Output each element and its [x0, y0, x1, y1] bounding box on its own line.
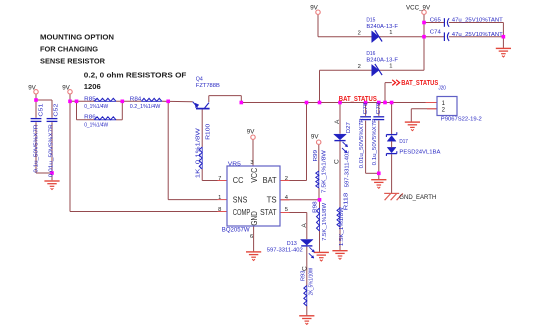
- transistor Q4: [193, 77, 220, 109]
- svg-text:SENSE RESISTOR: SENSE RESISTOR: [40, 56, 106, 65]
- wire D17 anode drop: [391, 103, 393, 135]
- wire SNS net from rail: [168, 101, 217, 199]
- pin number 8: [218, 207, 221, 213]
- svg-text:C: C: [301, 266, 308, 271]
- wire Q4 base to R100: [201, 109, 203, 147]
- svg-text:D17: D17: [399, 139, 408, 145]
- svg-text:47u_25V10%TANT: 47u_25V10%TANT: [452, 18, 503, 24]
- junction D27 branch: [338, 101, 342, 105]
- wire J20 pin2 to ground: [411, 109, 437, 122]
- svg-text:D27: D27: [346, 122, 352, 133]
- svg-text:9V: 9V: [310, 5, 318, 12]
- ground R93: [299, 316, 314, 325]
- LED D13: [267, 223, 315, 271]
- junction C52 bottom: [50, 171, 54, 175]
- pin number 7: [218, 176, 221, 182]
- LED D27: [334, 119, 352, 187]
- wire VCC_9V vertical: [423, 14, 425, 70]
- pin name COMP: [233, 208, 251, 217]
- pin name STAT: [260, 208, 277, 217]
- junction SNS drop: [166, 100, 170, 104]
- pin name CC: [233, 176, 244, 185]
- svg-text:STAT: STAT: [260, 208, 277, 217]
- pin number 6: [250, 234, 253, 240]
- ground C78/C79: [371, 180, 386, 189]
- wire BAT pin riser: [280, 103, 307, 181]
- svg-text:R85: R85: [84, 97, 96, 103]
- wire R118 to ground: [339, 227, 341, 250]
- svg-text:C79: C79: [376, 103, 382, 115]
- pin stub TS pin 4: [280, 199, 290, 201]
- pin number 2: [285, 176, 288, 182]
- wire D16 branch riser: [320, 70, 372, 102]
- svg-text:BAT_STATUS: BAT_STATUS: [339, 96, 377, 103]
- wire C79 bottom leg: [378, 121, 380, 174]
- junction Q4 collector: [240, 101, 244, 105]
- pin number 4: [285, 195, 289, 201]
- note resistors of 1206: [84, 70, 187, 91]
- svg-text:D13: D13: [287, 241, 298, 247]
- wire D27 cathode to R118: [339, 141, 341, 208]
- wire C79 top leg: [378, 103, 380, 116]
- svg-text:2: 2: [358, 30, 361, 36]
- svg-text:47u_25V10%TANT: 47u_25V10%TANT: [452, 32, 503, 38]
- wire C78 bottom leg: [365, 121, 367, 174]
- svg-text:R99: R99: [313, 150, 319, 162]
- op-amp U1 charge controller VR5 BQ2057W box: [222, 162, 280, 234]
- svg-text:0.01u_50V5%X7R: 0.01u_50V5%X7R: [48, 124, 54, 177]
- wire TS pin to R99/R98 node: [280, 199, 320, 201]
- svg-text:0.2_1%1/4W: 0.2_1%1/4W: [130, 104, 161, 110]
- wire R86 parallel loop: [77, 101, 123, 120]
- capacitor C51: [31, 104, 45, 173]
- svg-text:5: 5: [285, 207, 288, 213]
- wire C52 bottom leg: [51, 122, 53, 173]
- svg-text:Q4: Q4: [196, 77, 204, 83]
- wire D16 cathode to VCC_9V: [379, 69, 424, 71]
- svg-text:A: A: [334, 119, 341, 124]
- junction C65 row: [422, 21, 426, 25]
- svg-text:R84: R84: [130, 97, 142, 103]
- junction C79 top: [377, 101, 381, 105]
- svg-text:7: 7: [218, 176, 221, 182]
- wire C52 top leg: [51, 100, 53, 118]
- pin stub J20 pin 1: [426, 102, 438, 104]
- power VCC_9V: [406, 5, 431, 15]
- ground C65/C74: [496, 48, 511, 57]
- svg-text:SNS: SNS: [233, 195, 248, 204]
- resistor R93: [301, 268, 315, 306]
- pin name BAT: [263, 176, 277, 185]
- junction BAT riser: [305, 101, 309, 105]
- svg-text:9V: 9V: [311, 134, 319, 141]
- svg-text:VCC_9V: VCC_9V: [406, 5, 431, 12]
- svg-text:B240A-13-F: B240A-13-F: [366, 24, 398, 30]
- ground VR5 GND pin: [246, 252, 261, 261]
- resistor R86: [84, 114, 116, 128]
- svg-text:J20: J20: [438, 85, 446, 91]
- svg-text:8: 8: [218, 207, 221, 213]
- resistor R99: [313, 150, 328, 193]
- svg-text:D16: D16: [366, 51, 376, 57]
- label GND_EARTH: [399, 194, 436, 201]
- svg-text:C: C: [334, 159, 341, 164]
- svg-text:9V: 9V: [62, 84, 70, 91]
- svg-text:9V: 9V: [247, 129, 255, 136]
- wire C78 top leg: [365, 103, 367, 116]
- pin name TS: [267, 195, 277, 204]
- svg-text:7.5K_1%1/8W: 7.5K_1%1/8W: [322, 150, 328, 193]
- diode D16: [358, 51, 399, 76]
- wire R99 to TS node: [318, 188, 320, 200]
- resistor R98: [313, 201, 328, 241]
- svg-text:C74: C74: [430, 30, 442, 36]
- svg-text:FOR CHANGING: FOR CHANGING: [40, 44, 98, 53]
- svg-text:GND_EARTH: GND_EARTH: [399, 194, 436, 201]
- diode D15: [358, 18, 399, 43]
- pin number 1: [218, 195, 221, 201]
- pin stub SNS pin 1: [218, 199, 228, 201]
- pin name SNS: [233, 195, 248, 204]
- svg-text:PESD24VL1BA: PESD24VL1BA: [399, 150, 440, 156]
- svg-text:597-3311-402: 597-3311-402: [345, 150, 351, 187]
- capacitor C78: [359, 102, 371, 169]
- svg-text:0.1u_50V5%X7R: 0.1u_50V5%X7R: [372, 118, 378, 165]
- svg-text:R98: R98: [313, 201, 319, 213]
- svg-text:0_1%1/4W: 0_1%1/4W: [84, 104, 108, 110]
- capacitor C65: [430, 18, 503, 27]
- wire 9V stub to R99: [318, 144, 320, 171]
- svg-text:9V: 9V: [28, 84, 36, 91]
- wire C78/C79 bottom rail to ground: [366, 173, 379, 179]
- svg-text:FZT788B: FZT788B: [196, 83, 220, 89]
- svg-text:VR5: VR5: [228, 162, 242, 168]
- wire 9V to C51/C52 top rail: [36, 94, 52, 100]
- junction C74 right: [502, 35, 506, 39]
- junction D16 branch: [318, 101, 322, 105]
- svg-text:6: 6: [250, 234, 253, 240]
- svg-text:0.1u_50V5%X7R: 0.1u_50V5%X7R: [33, 125, 39, 173]
- ground J20 pin 2: [405, 122, 420, 131]
- pin stub BAT pin 2: [280, 180, 290, 182]
- svg-text:A: A: [301, 223, 308, 228]
- svg-text:3: 3: [250, 160, 253, 166]
- svg-text:597-3311-402: 597-3311-402: [267, 247, 303, 253]
- power 9V for D15: [310, 5, 320, 15]
- resistor R85: [84, 97, 116, 110]
- wire D17 to GND_EARTH: [391, 154, 393, 193]
- wire D13 cathode to R93: [306, 247, 308, 286]
- svg-text:D15: D15: [366, 18, 376, 24]
- svg-text:VCC: VCC: [250, 167, 259, 182]
- svg-text:R100: R100: [206, 123, 212, 140]
- junction BAT_STATUS riser: [383, 101, 387, 105]
- power 9V for VR5 VCC: [247, 129, 255, 140]
- svg-text:C65: C65: [430, 18, 442, 24]
- resistor R100: [195, 123, 211, 178]
- svg-text:2: 2: [358, 64, 361, 70]
- wire Q4 collector loop: [209, 96, 242, 103]
- svg-text:C78: C78: [363, 102, 369, 115]
- pin name GND: [250, 211, 259, 226]
- svg-text:BQ2057W: BQ2057W: [222, 227, 250, 234]
- wire BAT_STATUS off-page riser: [385, 83, 392, 103]
- wire C51 top leg: [35, 100, 37, 118]
- pin stub J20 pin 2: [427, 108, 437, 110]
- svg-text:B240A-13-F: B240A-13-F: [366, 57, 398, 63]
- wire C51 bottom leg: [35, 122, 37, 173]
- wire STAT pin to D13: [280, 213, 307, 240]
- junction TS node: [318, 198, 322, 202]
- svg-text:C52: C52: [53, 104, 59, 117]
- svg-text:0.2, 0 ohm RESISTORS OF: 0.2, 0 ohm RESISTORS OF: [84, 70, 187, 79]
- pin stub CC pin 7: [218, 180, 228, 182]
- svg-text:0.01u_50V5%X7R: 0.01u_50V5%X7R: [359, 118, 365, 168]
- wire R85 to R84: [116, 100, 141, 102]
- junction C78/C79 ground: [377, 172, 381, 176]
- junction D17 top: [390, 101, 394, 105]
- power 9V for C51/C52: [28, 84, 38, 94]
- connector J20: [437, 85, 482, 122]
- wire main charge rail right: [241, 102, 425, 104]
- pin stub STAT pin 5: [280, 212, 290, 214]
- wire main rail left segment: [70, 100, 94, 102]
- wire D27 anode drop: [339, 103, 341, 134]
- resistor R84: [130, 97, 162, 110]
- pin stub COMP pin 8: [218, 211, 228, 213]
- TVS diode D17: [386, 132, 440, 156]
- junction C51 top: [34, 98, 38, 102]
- svg-text:1: 1: [218, 195, 221, 201]
- wire D15 cathode to VCC_9V: [379, 36, 424, 38]
- svg-text:BAT_STATUS: BAT_STATUS: [401, 80, 438, 87]
- wire IC GND pin drop: [253, 226, 255, 251]
- svg-text:CC: CC: [233, 176, 244, 185]
- resistor R118: [337, 192, 349, 246]
- svg-text:C51: C51: [38, 104, 44, 117]
- ground R118: [332, 251, 347, 260]
- svg-text:R86: R86: [84, 114, 96, 120]
- wire R93 to ground: [306, 306, 308, 315]
- pin number 3: [250, 160, 253, 166]
- svg-text:MOUNTING OPTION: MOUNTING OPTION: [40, 32, 114, 41]
- ground R98: [314, 252, 329, 261]
- pin name VCC: [250, 167, 259, 182]
- svg-text:COMP: COMP: [233, 208, 251, 217]
- junction 9V rail: [68, 100, 72, 104]
- wire C51/C52 bottom rail: [36, 173, 52, 180]
- junction C74/D15 row: [422, 35, 426, 39]
- capacitor C74: [430, 30, 503, 41]
- wire 9V to D15 anode: [318, 14, 372, 36]
- junction R86 left: [75, 100, 79, 104]
- wire R100 to CC pin: [202, 169, 217, 181]
- power 9V for R99: [311, 134, 321, 145]
- ground earth GND_EARTH symbol: [384, 193, 403, 200]
- svg-text:P9067S22-19-2: P9067S22-19-2: [441, 116, 482, 122]
- wire C74 row: [424, 36, 503, 38]
- svg-text:1K_0.1%1/8W: 1K_0.1%1/8W: [195, 128, 201, 179]
- svg-text:7.5K_1%1/8W: 7.5K_1%1/8W: [322, 202, 328, 240]
- wire IC VCC pin from 9V: [252, 139, 254, 166]
- wire C65 row: [424, 22, 503, 24]
- capacitor C79: [372, 103, 384, 166]
- wire 9V stub to main rail: [69, 94, 71, 101]
- wire R84 to Q4 emitter: [162, 100, 193, 102]
- ground C51/C52: [44, 181, 59, 190]
- svg-text:0_1%1/4W: 0_1%1/4W: [84, 123, 108, 129]
- svg-text:TS: TS: [267, 195, 277, 204]
- wire C65/C74 right drop to ground: [502, 23, 504, 48]
- off-page connector BAT_STATUS: [392, 80, 438, 87]
- note mounting option: [40, 32, 114, 65]
- svg-text:2: 2: [285, 176, 288, 182]
- svg-text:1.5K_1%1/8W: 1.5K_1%1/8W: [339, 207, 345, 246]
- svg-text:1: 1: [389, 30, 392, 36]
- junction C78 top: [364, 101, 368, 105]
- svg-text:1: 1: [389, 63, 392, 69]
- wire R98 to ground: [319, 200, 321, 252]
- net label BAT_STATUS on rail: [339, 96, 377, 103]
- wire COMP net from 9V rail: [70, 101, 218, 211]
- svg-text:GND: GND: [250, 211, 259, 226]
- pin number 5: [285, 207, 288, 213]
- capacitor C52: [47, 104, 60, 178]
- svg-text:2K_5%1/10W: 2K_5%1/10W: [308, 268, 314, 296]
- svg-text:BAT: BAT: [263, 176, 277, 185]
- junction R86 right: [121, 100, 125, 104]
- power 9V main rail: [62, 84, 72, 94]
- svg-text:1206: 1206: [84, 82, 101, 91]
